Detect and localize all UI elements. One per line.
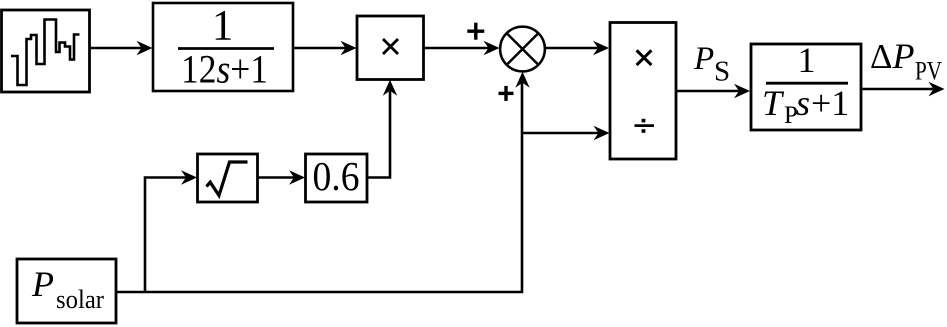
sqrt glyph — [207, 162, 248, 196]
svg-text:S: S — [714, 56, 730, 88]
multiplier block X — [357, 16, 424, 80]
svg-text:PV: PV — [915, 57, 942, 86]
svg-text:solar: solar — [56, 285, 104, 314]
wire 0.6 up to multiplier — [367, 91, 390, 178]
wire junction to divide block — [545, 47, 599, 50]
P_solar block — [17, 259, 116, 323]
svg-text:0.6: 0.6 — [313, 153, 360, 199]
svg-text:12s+1: 12s+1 — [181, 47, 268, 92]
bottom wire from P_solar — [116, 83, 522, 292]
svg-text:T: T — [762, 83, 785, 123]
plus sign bottom — [499, 92, 514, 95]
svg-text:P: P — [31, 264, 54, 304]
branch wire to divide input — [522, 132, 599, 135]
svg-text:1: 1 — [212, 2, 234, 49]
svg-text:P: P — [892, 36, 915, 76]
summing junction circle — [500, 27, 545, 72]
wire divide to lag block, P_S — [676, 90, 740, 93]
noise source block — [2, 10, 90, 92]
divide block — [610, 23, 676, 160]
plus sign top — [467, 30, 484, 33]
noise waveform — [11, 20, 80, 86]
svg-text:s: s — [796, 83, 810, 123]
wire sqrt to 0.6 — [258, 176, 295, 179]
transfer block 1/(12s+1) — [153, 3, 293, 91]
gain block 0.6 — [306, 154, 368, 202]
svg-text:P: P — [693, 41, 714, 77]
branch wire to sqrt block — [145, 178, 187, 293]
svg-text:1: 1 — [798, 40, 816, 80]
svg-text:+1: +1 — [811, 83, 849, 123]
wire noise to 1/(12s+1) — [90, 47, 143, 50]
output wire dP_PV — [861, 88, 934, 91]
wire to multiplier — [293, 47, 346, 50]
arrow into summing junction bottom — [515, 72, 529, 88]
svg-text:Δ: Δ — [870, 37, 893, 76]
lag block 1/(T_P s+1) — [751, 44, 861, 130]
sqrt block — [198, 154, 258, 202]
wire multiplier to summing junction — [424, 47, 490, 50]
